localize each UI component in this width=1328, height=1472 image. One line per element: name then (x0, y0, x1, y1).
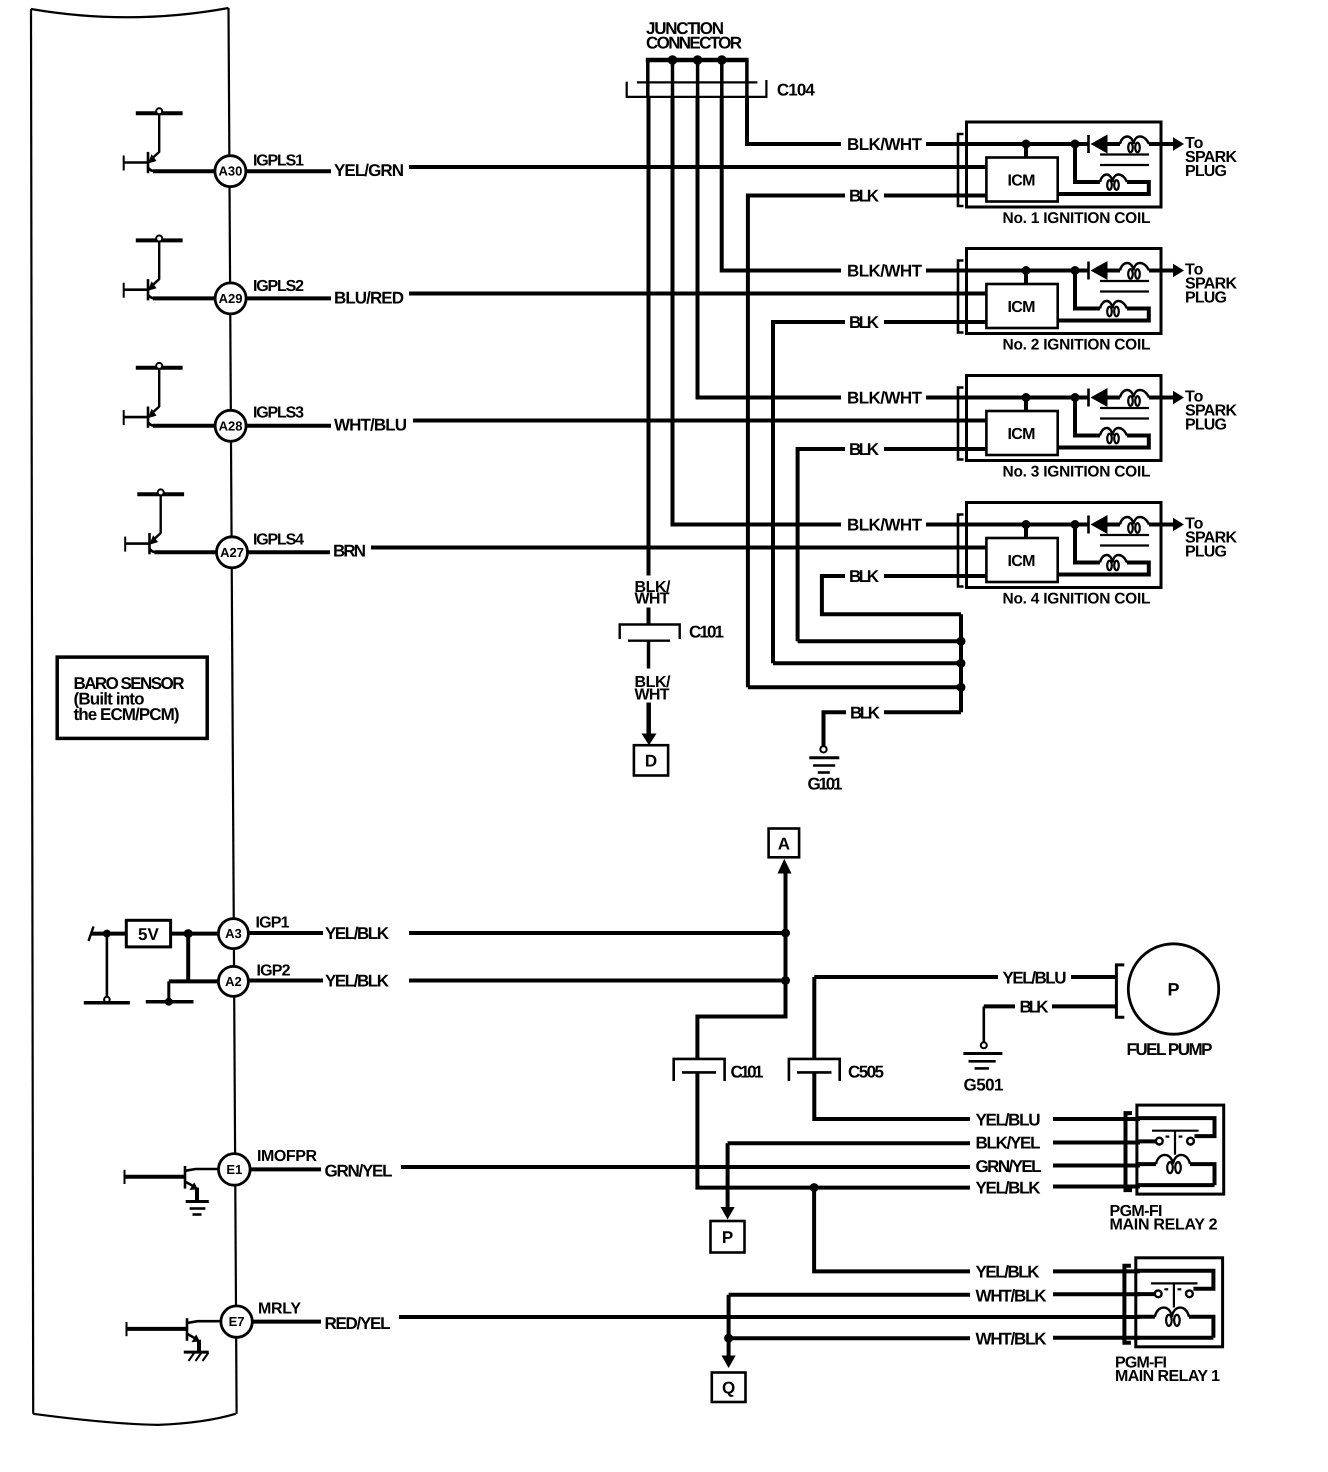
wire BLK return coil 1 (748, 196, 845, 688)
wire ECM left edge (31, 9, 33, 1414)
wire bus drop 3 (696, 60, 700, 97)
connector C101 upper (620, 625, 680, 640)
wire internal plate left (84, 1001, 130, 1005)
wire IGP1 YEL/BLK (248, 931, 323, 935)
node dot IGP1 (781, 929, 790, 938)
wire WHT/BLK lower (729, 1336, 970, 1340)
svg-text:D: D (645, 752, 657, 771)
svg-text:IGPLS3: IGPLS3 (253, 405, 304, 422)
svg-text:FUEL PUMP: FUEL PUMP (1127, 1040, 1213, 1059)
ignition coil unit 2 (884, 249, 1184, 334)
svg-text:YEL/BLU: YEL/BLU (1003, 969, 1067, 988)
node dot (810, 1183, 819, 1192)
wire ECM bottom torn edge (33, 1414, 235, 1425)
svg-text:BRN: BRN (333, 542, 366, 561)
svg-text:MRLY: MRLY (258, 1301, 301, 1318)
pin A29 (215, 283, 246, 314)
svg-text:A28: A28 (219, 418, 243, 433)
node P page reference box (711, 1221, 745, 1253)
svg-text:No. 1 IGNITION COIL: No. 1 IGNITION COIL (1003, 210, 1151, 227)
wire ECM right edge (229, 8, 237, 1414)
svg-text:WHT/BLK: WHT/BLK (976, 1287, 1048, 1306)
node dot (103, 930, 111, 938)
svg-text:P: P (722, 1228, 733, 1247)
svg-text:No. 4 IGNITION COIL: No. 4 IGNITION COIL (1003, 591, 1151, 608)
wire bus drop 2 (671, 60, 675, 97)
node bus dot (957, 637, 966, 646)
svg-text:YEL/GRN: YEL/GRN (334, 161, 404, 180)
node dot (165, 998, 173, 1006)
wire YEL/BLK branch to relay 1 (814, 1188, 970, 1272)
wire bus drop 5 (745, 60, 749, 97)
wire bus drop 4 (720, 60, 724, 97)
wire BLK/WHT feed coil 3 (698, 97, 842, 398)
wire BLK return coil 4 (822, 576, 961, 614)
svg-text:BLK: BLK (849, 567, 880, 586)
wire 5V to A3 (171, 932, 219, 936)
ground G501 (981, 1042, 987, 1048)
pin E1 (219, 1154, 251, 1186)
svg-text:C104: C104 (777, 81, 816, 100)
wire IGPLS3 WHT/BLU (246, 424, 331, 428)
ignition coil unit 3 (884, 376, 1184, 461)
svg-text:BLK/WHT: BLK/WHT (847, 135, 923, 154)
node bus dot (957, 659, 966, 668)
svg-text:C101: C101 (689, 623, 724, 642)
wire GRN/YEL to relay 2 (401, 1165, 970, 1169)
connector C101 lower (674, 1059, 725, 1081)
wire bus drop 1 (646, 60, 650, 97)
wire IGPLS4 BRN (248, 550, 331, 554)
svg-text:BLK: BLK (849, 313, 880, 332)
wire MRLY RED/YEL (253, 1320, 321, 1324)
wire BLK/WHT feed coil 1 (747, 97, 841, 144)
ignition coil unit 1 (884, 122, 1184, 207)
ignition coil unit 4 (884, 503, 1184, 588)
node bus dot 2 (693, 55, 703, 65)
wire internal plate right (146, 1000, 194, 1004)
svg-text:P: P (1167, 980, 1179, 1000)
transistor driver E1 (124, 1170, 126, 1184)
svg-text:A3: A3 (225, 926, 242, 941)
wire 5V input tick (89, 927, 94, 942)
node Q page reference box (712, 1373, 746, 1403)
wire branch from 5V input down (106, 934, 109, 997)
ground E1 emitter (186, 1200, 209, 1203)
wire RED/YEL to relay 1 (399, 1315, 1140, 1319)
svg-text:WHT: WHT (635, 591, 670, 608)
svg-text:PLUG: PLUG (1185, 417, 1227, 434)
wire arrow up to A (778, 859, 792, 874)
svg-text:E1: E1 (226, 1162, 242, 1177)
svg-text:MAIN RELAY 2: MAIN RELAY 2 (1110, 1217, 1218, 1234)
pin A28 (215, 410, 246, 441)
transistor driver A29 (124, 236, 216, 301)
BARO sensor note box (57, 657, 207, 738)
svg-text:GRN/YEL: GRN/YEL (325, 1162, 393, 1181)
wire junction bus bar (646, 58, 749, 63)
svg-text:C505: C505 (848, 1063, 884, 1082)
pin A27 (217, 537, 248, 568)
wire BLK fuel pump ground (984, 1004, 1015, 1008)
pin A30 (215, 156, 246, 187)
svg-text:WHT/BLK: WHT/BLK (976, 1330, 1048, 1349)
wire BLK/YEL to relay 2 (728, 1141, 970, 1145)
svg-text:WHT: WHT (635, 687, 670, 704)
svg-text:IGPLS1: IGPLS1 (253, 153, 304, 170)
svg-text:No. 3 IGNITION COIL: No. 3 IGNITION COIL (1003, 464, 1151, 481)
transistor driver A30 (124, 108, 216, 173)
svg-text:the ECM/PCM): the ECM/PCM) (74, 705, 180, 724)
component 5V regulator box (126, 920, 170, 947)
svg-text:BLK/WHT: BLK/WHT (847, 389, 923, 408)
svg-text:PLUG: PLUG (1185, 163, 1227, 180)
wire ECM top torn edge (31, 8, 229, 17)
svg-text:A: A (778, 835, 790, 854)
wire 5V branch down to A2 (186, 934, 190, 982)
wire IMOFPR GRN/YEL (251, 1167, 322, 1171)
wire YEL/BLU to relay 2 (814, 1073, 970, 1119)
svg-text:IMOFPR: IMOFPR (257, 1148, 317, 1165)
node dot IGP2 (781, 976, 790, 985)
wire BLK/WHT feed coil 2 (722, 97, 841, 271)
relay PGM-FI main relay 1 (1124, 1258, 1222, 1347)
svg-text:C101: C101 (731, 1063, 764, 1082)
svg-text:YEL/BLK: YEL/BLK (976, 1263, 1041, 1282)
wire WHT/BLK down to Q (727, 1295, 731, 1356)
wire step down (167, 981, 170, 1001)
svg-text:YEL/BLK: YEL/BLK (325, 972, 390, 991)
component fuel pump (1116, 965, 1124, 1017)
wire BLK return coil 3 (798, 449, 845, 641)
pin A2 (218, 966, 248, 996)
node dot (724, 1334, 733, 1343)
pin E7 (221, 1306, 252, 1337)
svg-text:PLUG: PLUG (1185, 544, 1227, 561)
wire BLK return coil 2 (773, 322, 845, 663)
wire IGPLS2 BLU/RED (246, 296, 331, 300)
svg-text:BLK: BLK (849, 187, 880, 206)
svg-text:Q: Q (722, 1379, 735, 1398)
transistor driver E7 (126, 1322, 128, 1336)
pin A3 (218, 919, 248, 949)
transistor driver A28 (124, 363, 216, 428)
wire to A2 (169, 979, 219, 983)
wire YEL/BLK from C101 to relay 2 (697, 1073, 970, 1188)
svg-text:BLK: BLK (1020, 998, 1050, 1017)
svg-text:PLUG: PLUG (1185, 290, 1227, 307)
svg-text:E7: E7 (229, 1314, 245, 1329)
svg-text:MAIN RELAY 1: MAIN RELAY 1 (1115, 1368, 1220, 1385)
svg-text:BLU/RED: BLU/RED (334, 289, 404, 308)
transistor driver A27 (125, 489, 217, 554)
svg-text:YEL/BLU: YEL/BLU (976, 1111, 1041, 1130)
wire arrow down to P (726, 1143, 730, 1207)
chassis ground E7 emitter (184, 1351, 209, 1354)
svg-text:WHT/BLU: WHT/BLU (334, 416, 407, 435)
svg-text:YEL/BLK: YEL/BLK (976, 1179, 1042, 1198)
wire BLK/WHT below C101 (647, 641, 651, 669)
svg-text:A29: A29 (219, 291, 243, 306)
wire BLK/WHT feed C101 upper (647, 97, 651, 576)
wire BLK/WHT feed coil 4 (673, 97, 842, 525)
wire BLK ground bus (959, 614, 963, 712)
node bus dot (957, 683, 966, 692)
connector C505 (789, 1059, 840, 1081)
svg-text:BLK: BLK (850, 704, 881, 723)
node dot (184, 929, 193, 938)
svg-text:IGPLS4: IGPLS4 (253, 532, 304, 549)
svg-text:A2: A2 (225, 974, 242, 989)
svg-text:5V: 5V (138, 925, 159, 944)
svg-text:YEL/BLK: YEL/BLK (325, 924, 390, 943)
svg-text:IGPLS2: IGPLS2 (253, 278, 304, 295)
wire BLK to G101 (884, 710, 961, 714)
wire into 5V regulator (91, 932, 126, 936)
node A page reference box (769, 829, 800, 858)
wire YEL/BLU to fuel pump (814, 975, 998, 979)
svg-text:IGP2: IGP2 (257, 963, 291, 980)
svg-text:BLK/YEL: BLK/YEL (976, 1134, 1041, 1153)
svg-text:BLK/WHT: BLK/WHT (847, 516, 923, 535)
node bus dot 1 (668, 55, 678, 65)
node bus dot 3 (717, 55, 727, 65)
svg-text:IGP1: IGP1 (256, 915, 290, 932)
svg-text:GRN/YEL: GRN/YEL (976, 1157, 1042, 1176)
wire arrow to D (646, 703, 651, 735)
svg-text:G501: G501 (964, 1076, 1004, 1095)
wire IGP2 YEL/BLK (248, 979, 323, 983)
connector C104 (637, 81, 758, 83)
svg-text:A30: A30 (218, 164, 242, 179)
wire YEL/BLU down to C505 (812, 977, 816, 1059)
svg-text:BLK/WHT: BLK/WHT (847, 262, 923, 281)
svg-text:RED/YEL: RED/YEL (325, 1314, 391, 1333)
svg-text:No. 2 IGNITION COIL: No. 2 IGNITION COIL (1003, 337, 1151, 354)
svg-text:BLK: BLK (849, 440, 880, 459)
svg-text:A27: A27 (220, 545, 244, 560)
relay PGM-FI main relay 2 (1126, 1105, 1224, 1194)
ground G101 (820, 746, 826, 752)
svg-text:CONNECTOR: CONNECTOR (646, 34, 742, 53)
wire WHT/BLK upper (729, 1293, 970, 1297)
wire IGPLS1 YEL/GRN (246, 169, 331, 173)
node D page reference box (634, 745, 668, 775)
svg-text:G101: G101 (808, 775, 843, 794)
